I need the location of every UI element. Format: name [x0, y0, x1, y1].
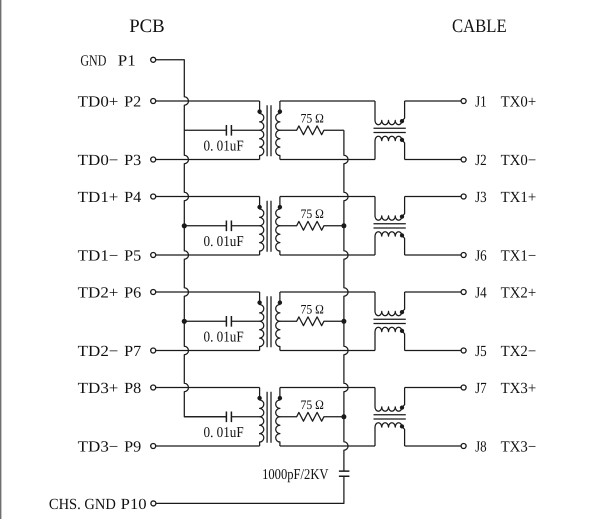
scan edge artifact line at left border: [0, 0, 1, 519]
common-mode choke L1 bottom winding: [375, 136, 405, 159]
wire 75-ohm common termination bus with crossover hops: [344, 130, 348, 471]
pin P8: [151, 385, 156, 390]
wire choke L1 to J1: [405, 100, 461, 102]
transformer T1 primary winding: [260, 101, 264, 160]
polarity dot T1 primary: [257, 109, 261, 113]
common-mode choke L1 core: [374, 128, 406, 132]
svg-text:TD2−: TD2−: [78, 343, 119, 360]
svg-text:P9: P9: [124, 439, 141, 456]
wire TD0+ row to transformer T1: [156, 100, 260, 102]
wire GND bus to C1: [184, 129, 226, 131]
wire choke L4 to J8: [405, 445, 461, 447]
transformer T2 secondary winding: [276, 197, 280, 256]
junction node termination bus / R4: [341, 414, 346, 419]
svg-text:P8: P8: [124, 380, 141, 397]
wire choke L4 to J7: [405, 387, 461, 389]
wire GND bus to C3: [184, 320, 226, 322]
resistor R1 75 ohm: [280, 126, 344, 135]
svg-text:0. 01uF: 0. 01uF: [204, 330, 244, 346]
common-mode choke L2 bottom winding: [375, 232, 405, 255]
common-mode choke L2 top winding: [375, 197, 405, 221]
wire C4 to T4 primary center tap: [231, 416, 259, 418]
wire T4 to choke L4 top: [280, 387, 375, 389]
wire choke L2 to J3: [405, 196, 461, 198]
polarity dot L4 bottom winding: [400, 424, 404, 428]
wire T1 to choke L1 top: [280, 100, 375, 102]
wire T2 to choke L2 bottom: [280, 254, 375, 256]
common-mode choke L3 core: [374, 319, 406, 323]
svg-text:0. 01uF: 0. 01uF: [204, 234, 244, 250]
svg-text:J6: J6: [475, 248, 487, 265]
common-mode choke L3 top winding: [375, 292, 405, 316]
svg-text:1000pF/2KV: 1000pF/2KV: [262, 467, 329, 483]
transformer T2 core: [267, 201, 271, 252]
svg-text:P5: P5: [124, 248, 141, 265]
wire GND bus to C2: [184, 225, 226, 227]
polarity dot T2 secondary: [278, 205, 282, 209]
svg-text:CABLE: CABLE: [452, 16, 507, 37]
pin J5: [461, 348, 466, 353]
svg-text:TX3−: TX3−: [501, 439, 537, 456]
capacitor C4 0.01uF: [226, 412, 231, 423]
svg-text:75 Ω: 75 Ω: [301, 206, 324, 221]
wire GND bus to C4: [184, 416, 226, 418]
svg-text:P10: P10: [121, 496, 147, 513]
junction node termination bus / R3: [341, 319, 346, 324]
wire T3 to choke L3 top: [280, 291, 375, 293]
pin J3: [461, 194, 466, 199]
svg-text:J1: J1: [475, 94, 487, 111]
pin P4: [151, 194, 156, 199]
common-mode choke L4 top winding: [375, 388, 405, 412]
transformer T2 primary winding: [260, 197, 264, 256]
wire T2 to choke L2 top: [280, 196, 375, 198]
pin J6: [461, 253, 466, 258]
svg-text:P6: P6: [124, 285, 141, 302]
svg-text:TX3+: TX3+: [501, 380, 537, 397]
svg-text:TD1−: TD1−: [78, 248, 119, 265]
wire TD0− row to transformer T1: [156, 159, 260, 161]
resistor R2 75 ohm: [280, 221, 344, 230]
pin P9: [151, 444, 156, 449]
svg-text:TX0+: TX0+: [501, 94, 537, 111]
polarity dot T4 primary: [257, 396, 261, 400]
polarity dot T3 primary: [257, 300, 261, 304]
transformer T3 primary winding: [260, 292, 264, 351]
svg-text:J4: J4: [475, 285, 487, 302]
svg-text:TD3+: TD3+: [78, 380, 119, 397]
wire C5 to P10 chassis ground: [156, 476, 344, 503]
junction node GND bus / C2: [182, 223, 187, 228]
polarity dot L2 bottom winding: [400, 233, 404, 237]
svg-text:0. 01uF: 0. 01uF: [204, 139, 244, 155]
svg-text:75 Ω: 75 Ω: [301, 110, 324, 125]
junction node GND bus / C3: [182, 319, 187, 324]
wire choke L2 to J6: [405, 254, 461, 256]
resistor R4 75 ohm: [280, 412, 344, 421]
svg-text:TX1+: TX1+: [501, 189, 537, 206]
polarity dot L3 top winding: [400, 310, 404, 314]
pin P2: [151, 99, 156, 104]
svg-text:TX2−: TX2−: [501, 343, 537, 360]
pin J7: [461, 385, 466, 390]
polarity dot L2 top winding: [400, 214, 404, 218]
svg-text:TD1+: TD1+: [78, 189, 119, 206]
transformer T4 secondary winding: [276, 388, 280, 447]
svg-text:J8: J8: [475, 439, 487, 456]
junction node termination bus / R2: [341, 223, 346, 228]
svg-text:TX1−: TX1−: [501, 248, 537, 265]
svg-text:TD3−: TD3−: [78, 439, 119, 456]
wire choke L3 to J5: [405, 350, 461, 352]
svg-text:P4: P4: [124, 189, 141, 206]
common-mode choke L2 core: [374, 224, 406, 228]
svg-text:TD0+: TD0+: [78, 94, 119, 111]
common-mode choke L4 bottom winding: [375, 423, 405, 446]
pin P6: [151, 290, 156, 295]
svg-text:TD0−: TD0−: [78, 152, 119, 169]
transformer T1 core: [267, 105, 271, 156]
svg-text:CHS. GND: CHS. GND: [49, 496, 116, 513]
transformer T1 secondary winding: [276, 101, 280, 160]
svg-text:J5: J5: [475, 343, 487, 360]
svg-text:TX2+: TX2+: [501, 285, 537, 302]
polarity dot T3 secondary: [278, 300, 282, 304]
svg-text:P2: P2: [124, 94, 141, 111]
common-mode choke L4 core: [374, 415, 406, 419]
pin P5: [151, 253, 156, 258]
pin J1: [461, 99, 466, 104]
transformer T4 primary winding: [260, 388, 264, 447]
wire TD2− row to transformer T3: [156, 350, 260, 352]
wire T3 to choke L3 bottom: [280, 350, 375, 352]
svg-text:0. 01uF: 0. 01uF: [204, 425, 244, 441]
pin P3: [151, 157, 156, 162]
polarity dot L4 top winding: [400, 405, 404, 409]
polarity dot T2 primary: [257, 205, 261, 209]
pin P7: [151, 348, 156, 353]
svg-text:P3: P3: [124, 152, 141, 169]
polarity dot T1 secondary: [278, 109, 282, 113]
svg-text:PCB: PCB: [129, 16, 165, 37]
wire C2 to T2 primary center tap: [231, 225, 259, 227]
wire C1 to T1 primary center tap: [231, 129, 259, 131]
polarity dot T4 secondary: [278, 396, 282, 400]
resistor R3 75 ohm: [280, 317, 344, 326]
wire C3 to T3 primary center tap: [231, 320, 259, 322]
polarity dot L1 bottom winding: [400, 138, 404, 142]
common-mode choke L1 top winding: [375, 101, 405, 125]
polarity dot L1 top winding: [400, 119, 404, 123]
wire T4 to choke L4 bottom: [280, 445, 375, 447]
capacitor C1 0.01uF: [226, 125, 231, 136]
svg-text:TD2+: TD2+: [78, 285, 119, 302]
svg-text:J2: J2: [475, 152, 487, 169]
pin J2: [461, 157, 466, 162]
wire TD3+ row to transformer T4: [156, 387, 260, 389]
polarity dot L3 bottom winding: [400, 329, 404, 333]
capacitor C2 0.01uF: [226, 221, 231, 232]
svg-text:J3: J3: [475, 189, 487, 206]
svg-text:75 Ω: 75 Ω: [301, 301, 324, 316]
pin P1: [151, 57, 156, 62]
svg-text:75 Ω: 75 Ω: [301, 397, 324, 412]
svg-text:GND: GND: [80, 52, 106, 69]
wire TD1− row to transformer T2: [156, 254, 260, 256]
wire TD2+ row to transformer T3: [156, 291, 260, 293]
pin J4: [461, 290, 466, 295]
wire choke L1 to J2: [405, 159, 461, 161]
pin J8: [461, 444, 466, 449]
pin P10: [151, 501, 156, 506]
wire TD3− row to transformer T4: [156, 445, 260, 447]
wire GND bus from P1 with crossover hops: [156, 60, 226, 417]
common-mode choke L3 bottom winding: [375, 327, 405, 350]
capacitor C5 1000pF/2KV: [339, 471, 350, 476]
svg-text:P1: P1: [118, 52, 136, 69]
wire TD1+ row to transformer T2: [156, 196, 260, 198]
svg-text:TX0−: TX0−: [501, 152, 537, 169]
capacitor C3 0.01uF: [226, 316, 231, 327]
wire choke L3 to J4: [405, 291, 461, 293]
transformer T4 core: [267, 392, 271, 443]
transformer T3 secondary winding: [276, 292, 280, 351]
svg-text:P7: P7: [124, 343, 141, 360]
wire T1 to choke L1 bottom: [280, 159, 375, 161]
svg-text:J7: J7: [475, 380, 487, 397]
transformer T3 core: [267, 296, 271, 347]
